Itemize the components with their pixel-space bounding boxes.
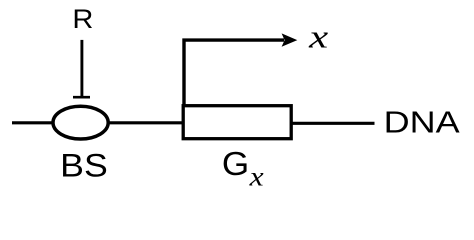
repressor stem	[80, 40, 83, 96]
wire: DNA middle segment	[108, 121, 183, 124]
svg-text:G: G	[222, 145, 249, 182]
svg-text:BS: BS	[60, 146, 108, 183]
svg-text:x: x	[248, 162, 263, 192]
arrowhead	[282, 33, 298, 46]
repressor T-bar (inhibition)	[73, 96, 90, 99]
svg-text:DNA: DNA	[384, 104, 461, 139]
svg-text:x: x	[308, 19, 329, 55]
wire: DNA left segment	[12, 121, 54, 124]
wire: DNA right segment	[292, 122, 375, 125]
transcription arrow (promoter)	[184, 40, 284, 106]
binding site ellipse BS	[53, 106, 108, 139]
gene box Gx	[183, 106, 291, 139]
svg-text:R: R	[72, 4, 93, 34]
